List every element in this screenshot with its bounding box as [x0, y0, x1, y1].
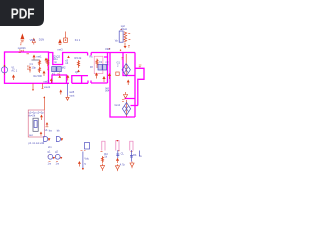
svg-text:K1 1: K1 1 [75, 38, 81, 42]
svg-text:net5: net5 [44, 80, 50, 84]
svg-text:10p: 10p [32, 65, 37, 69]
svg-text:out: out [29, 133, 33, 137]
svg-text:net5: net5 [69, 90, 75, 94]
svg-text:Rf: Rf [90, 65, 93, 69]
svg-text:D1N: D1N [39, 38, 44, 42]
svg-text:R3 2k: R3 2k [75, 56, 82, 60]
svg-text:X1: X1 [99, 60, 103, 64]
svg-text:AC 1: AC 1 [11, 69, 17, 73]
svg-text:Q3: Q3 [75, 70, 79, 74]
svg-text:Rb: Rb [133, 153, 137, 157]
svg-text:4.7p: 4.7p [120, 163, 126, 167]
svg-text:10uH: 10uH [121, 27, 127, 31]
svg-text:PDF: PDF [11, 5, 35, 22]
svg-text:Vp: Vp [115, 39, 119, 43]
svg-text:vout1: vout1 [44, 85, 51, 89]
svg-text:net1: net1 [37, 54, 43, 58]
svg-text:1m: 1m [48, 162, 52, 166]
svg-text:VDD: VDD [30, 38, 36, 42]
svg-text:2m: 2m [48, 145, 52, 149]
svg-text:p1 n1 out vdd: p1 n1 out vdd [29, 141, 45, 145]
svg-text:Vdd!: Vdd! [105, 47, 111, 51]
svg-text:Gm2: Gm2 [115, 103, 121, 107]
svg-text:Vdc: Vdc [84, 156, 89, 160]
svg-text:Re 500: Re 500 [34, 74, 43, 78]
svg-text:vout: vout [70, 94, 75, 98]
svg-text:rb=2k: rb=2k [29, 114, 36, 118]
svg-text:net3: net3 [58, 47, 64, 51]
svg-text:004: 004 [105, 88, 110, 92]
svg-text:Tank: Tank [19, 50, 25, 53]
svg-text:C1: C1 [30, 62, 34, 66]
svg-text:M2: M2 [62, 66, 66, 70]
svg-text:1m: 1m [56, 162, 60, 166]
svg-text:CL: CL [121, 152, 125, 156]
